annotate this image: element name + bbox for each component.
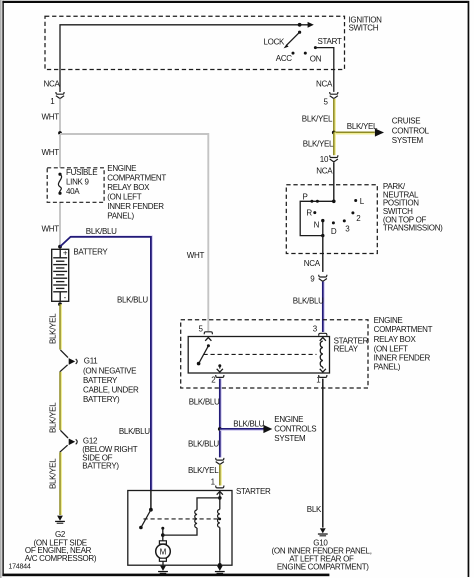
starter relay label [334, 337, 369, 354]
svg-text:NCA: NCA [304, 259, 321, 268]
svg-text:ACC: ACC [276, 54, 293, 63]
node 2 [351, 211, 354, 214]
pin 2 starter relay [216, 375, 224, 377]
wire BLK/YEL connector 5 down [334, 99, 336, 133]
svg-text:BLK/BLU: BLK/BLU [188, 440, 219, 449]
svg-text:SYSTEM: SYSTEM [392, 136, 424, 145]
node battery negative [58, 302, 62, 306]
starter solenoid switch blade [142, 510, 151, 527]
junction battery feed [149, 508, 153, 512]
svg-text:PANEL): PANEL) [374, 363, 401, 372]
svg-text:CRUISE: CRUISE [392, 117, 420, 126]
svg-text:TRANSMISSION): TRANSMISSION) [383, 224, 443, 233]
svg-text:RELAY: RELAY [334, 345, 359, 354]
starter box [128, 491, 232, 566]
arrow to engine controls system [263, 425, 272, 433]
wire BLK/YEL G11 to G12 [60, 372, 62, 430]
starter terminal 1 internal [219, 491, 221, 498]
relay actuation dashed link [204, 353, 317, 355]
svg-text:D: D [331, 227, 337, 236]
svg-text:BLK/YEL: BLK/YEL [303, 140, 334, 149]
svg-text:+: + [63, 249, 68, 258]
svg-text:SWITCH: SWITCH [349, 24, 379, 33]
svg-text:ENGINE: ENGINE [274, 415, 303, 424]
node battery positive [58, 245, 62, 249]
relay coil [320, 341, 323, 367]
svg-text:ENGINE COMPARTMENT): ENGINE COMPARTMENT) [277, 563, 369, 572]
wire BLK/BLU branch to engine controls [220, 429, 264, 431]
svg-text:WHT: WHT [187, 251, 205, 260]
park/neutral position switch box [286, 185, 377, 254]
junction ignition feed [298, 23, 302, 27]
svg-text:(ON LEFT: (ON LEFT [107, 193, 141, 202]
connector 9 [319, 275, 327, 281]
wire WHT branch to starter relay pin 5 [60, 134, 208, 331]
svg-text:SYSTEM: SYSTEM [274, 434, 306, 443]
starter motor M [159, 541, 166, 544]
svg-text:10: 10 [320, 155, 329, 164]
svg-text:BATTERY): BATTERY) [82, 461, 119, 470]
wire BLK/BLU relay pin 2 down [220, 379, 222, 458]
svg-text:ON: ON [310, 54, 322, 63]
wire BLK relay pin 1 to G10 [322, 379, 324, 528]
hold-in winding [219, 498, 221, 510]
arrow ignition feed [308, 22, 314, 28]
svg-text:STARTER: STARTER [236, 487, 271, 496]
node D [332, 221, 335, 224]
wire BLK/YEL junction to connector 10 [334, 133, 336, 156]
ignition switch box [45, 16, 345, 69]
relay switch blade [207, 344, 210, 347]
svg-text:BLK/BLU: BLK/BLU [293, 296, 324, 305]
fusible link 9 40A [58, 173, 61, 176]
junction P/N output [321, 234, 324, 237]
svg-text:INNER FENDER: INNER FENDER [374, 354, 431, 363]
wire ignition feed internal [60, 25, 309, 92]
ground G10 [318, 528, 328, 536]
svg-text:BLK/YEL: BLK/YEL [302, 114, 333, 123]
svg-text:BLK/YEL: BLK/YEL [347, 122, 378, 131]
wire BLK/YEL branch to cruise control [334, 133, 375, 135]
svg-text:174844: 174844 [8, 562, 30, 571]
node N [321, 219, 324, 222]
svg-text:BLK/BLU: BLK/BLU [119, 427, 150, 436]
arrow to cruise control system [375, 128, 384, 136]
connector 10 [330, 155, 338, 161]
svg-text:BLK/YEL: BLK/YEL [49, 402, 58, 433]
ground G2 [55, 516, 65, 524]
connector splice BLK/BLU to BLK/YEL [216, 458, 224, 464]
svg-text:NCA: NCA [316, 79, 333, 88]
svg-text:WHT: WHT [42, 148, 60, 157]
junction engine controls branch [218, 427, 222, 431]
svg-text:CONTROLS: CONTROLS [274, 424, 316, 433]
svg-text:CONTROL: CONTROL [392, 126, 430, 135]
svg-text:P: P [303, 193, 308, 202]
ground G11 [60, 350, 77, 372]
wire BLK/YEL to starter connector 1 [220, 465, 222, 486]
contact dots position P [310, 200, 313, 203]
junction hold-in ground [218, 563, 222, 567]
svg-text:BLK/BLU: BLK/BLU [117, 295, 148, 304]
svg-text:LINK 9: LINK 9 [66, 178, 90, 187]
wire pull-in winding bottom [163, 528, 197, 535]
wire BLK/YEL battery negative to G11 [60, 304, 62, 349]
svg-text:CABLE, UNDER: CABLE, UNDER [83, 385, 139, 394]
wire START output [315, 48, 333, 92]
svg-text:BLK/BLU: BLK/BLU [189, 398, 220, 407]
fusible link box [47, 168, 104, 203]
park/neutral switch internal wiring [300, 201, 334, 235]
park/neutral position switch label [383, 182, 443, 233]
svg-text:WHT: WHT [42, 113, 60, 122]
svg-text:WHT: WHT [42, 224, 60, 233]
wire BLK/YEL G12 to G2 [60, 452, 62, 515]
battery B1 [52, 249, 69, 301]
svg-text:INNER FENDER: INNER FENDER [107, 202, 164, 211]
svg-text:RELAY BOX: RELAY BOX [107, 183, 150, 192]
svg-text:ENGINE: ENGINE [107, 164, 136, 173]
wire WHT to battery [59, 134, 61, 247]
svg-text:G11: G11 [84, 356, 98, 365]
starter battery feed internal [150, 491, 152, 510]
wire NCA to park/neutral switch [333, 162, 335, 201]
svg-text:NCA: NCA [316, 166, 333, 175]
ground starter solenoid [215, 566, 225, 574]
svg-text:LOCK: LOCK [264, 38, 286, 47]
starter solenoid fixed contact [161, 527, 164, 530]
junction motor feed [161, 533, 165, 537]
svg-text:FUSIBLE: FUSIBLE [66, 168, 97, 177]
engine compartment relay box label [374, 316, 433, 372]
svg-text:BATTERY: BATTERY [83, 376, 118, 385]
wire WHT from connector 1 [59, 99, 61, 133]
wire BLK/BLU connector 9 to relay pin 3 [323, 282, 325, 332]
svg-text:RELAY BOX: RELAY BOX [374, 335, 417, 344]
ground starter motor [158, 566, 168, 574]
svg-text:START: START [318, 37, 342, 46]
svg-text:COMPARTMENT: COMPARTMENT [107, 174, 166, 183]
svg-text:R: R [306, 208, 312, 217]
node ACC [292, 52, 295, 55]
node L [354, 199, 357, 202]
pull-in winding [195, 510, 197, 528]
junction cruise branch [332, 131, 336, 135]
svg-text:BLK/BLU: BLK/BLU [233, 419, 264, 428]
connector 1 ignition [56, 92, 64, 98]
svg-text:NCA: NCA [44, 79, 61, 88]
svg-text:BATTERY): BATTERY) [83, 395, 120, 404]
connector 5 ignition [330, 92, 338, 98]
switch blade toward LOCK [287, 32, 300, 45]
svg-text:40A: 40A [66, 187, 80, 196]
svg-text:BLK/YEL: BLK/YEL [188, 466, 219, 475]
svg-text:BLK/YEL: BLK/YEL [49, 313, 58, 344]
svg-text:(ON NEGATIVE: (ON NEGATIVE [83, 366, 136, 375]
junction windings [218, 496, 222, 500]
junction P/N input [332, 200, 336, 204]
svg-text:BLK/YEL: BLK/YEL [49, 458, 58, 489]
relay fixed contact to pin 2 [218, 364, 221, 367]
svg-text:COMPARTMENT: COMPARTMENT [374, 325, 433, 334]
ignition switch label [349, 16, 383, 33]
svg-text:A/C COMPRESSOR): A/C COMPRESSOR) [25, 554, 97, 563]
engine compartment relay box label (fusible link) [107, 164, 166, 221]
svg-text:M: M [160, 548, 167, 557]
svg-text:ENGINE: ENGINE [374, 316, 403, 325]
node R [313, 211, 316, 214]
node ON [304, 52, 307, 55]
wire NCA park/neutral output [322, 236, 324, 272]
svg-text:BLK: BLK [307, 505, 322, 514]
svg-text:(ON LEFT: (ON LEFT [374, 345, 408, 354]
wire BLK/BLU battery to starter [61, 236, 152, 490]
solenoid actuation dashed link [144, 518, 220, 520]
ground G12 [60, 430, 77, 452]
svg-text:PANEL): PANEL) [107, 212, 134, 221]
pin 1 starter relay [319, 375, 327, 377]
starter relay body [188, 337, 329, 374]
node 3 [343, 219, 346, 222]
svg-text:BATTERY: BATTERY [73, 247, 108, 256]
junction node WHT [58, 131, 62, 135]
engine compartment relay box (dashed) [181, 320, 368, 388]
switch pivot [298, 31, 301, 34]
svg-text:BLK/BLU: BLK/BLU [86, 227, 117, 236]
svg-text:N: N [314, 220, 320, 229]
